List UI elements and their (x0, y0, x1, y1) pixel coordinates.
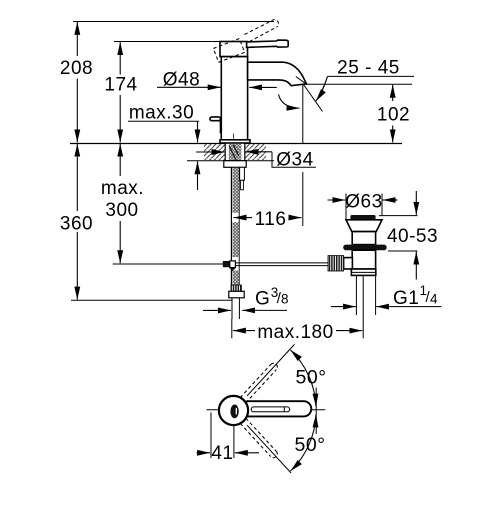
dimension 174 (119, 42, 121, 75)
top reference line (208 level) (73, 21, 274, 23)
faucet base (220, 140, 250, 143)
top view: body circle (219, 396, 248, 425)
dimension 208 (76, 22, 78, 56)
102 top reference line (305, 83, 412, 85)
svg-text:300: 300 (105, 200, 138, 221)
waste body lower (352, 250, 375, 269)
svg-text:25 - 45: 25 - 45 (337, 58, 400, 79)
svg-text:41: 41 (211, 443, 233, 464)
waste seal ring (343, 245, 386, 251)
top view: lever capsule (241, 401, 311, 416)
svg-text:208: 208 (60, 58, 93, 79)
hose end knurled nut (231, 285, 241, 291)
174 reference line (114, 41, 247, 43)
pull-rod (219, 120, 221, 133)
dimension 360 (76, 144, 78, 211)
pop-up rod horizontal (double line to waste) (235, 263, 328, 266)
deck bottom line (187, 160, 274, 162)
svg-text:G: G (255, 289, 270, 310)
svg-text:max.: max. (101, 178, 144, 199)
water stream line (304, 85, 323, 112)
pop-up waste: plug cap (350, 215, 375, 220)
50° reference line upper (247, 344, 294, 395)
dimension max.300 (119, 144, 121, 176)
svg-text:4: 4 (430, 292, 438, 307)
rod coupling at hose (223, 261, 230, 267)
top view: centerline (207, 409, 326, 411)
mounting nut (224, 161, 246, 168)
svg-text:50°: 50° (295, 434, 326, 456)
dashed cartridge (raised position) (213, 39, 244, 63)
svg-text:40-53: 40-53 (387, 226, 438, 247)
svg-text:360: 360 (60, 214, 93, 235)
tailpipe inner / max180 extension line (362, 275, 364, 338)
svg-text:102: 102 (377, 105, 410, 126)
dimension 41 (211, 413, 234, 459)
waste tailpipe (356, 275, 375, 315)
dimension Ø63 (346, 194, 382, 220)
top view: upper dashed lever (240, 365, 271, 398)
waste flange bell (346, 220, 382, 232)
top view: cartridge oval (230, 405, 238, 419)
spout aerator face (296, 77, 306, 84)
swivel arc arrow (279, 95, 300, 109)
pull-rod knob (210, 117, 221, 121)
dimension 102 (392, 85, 394, 101)
svg-text:116: 116 (255, 209, 287, 230)
waste collar (351, 269, 375, 275)
tube extension line (231, 319, 233, 338)
hose end hex nut (229, 291, 244, 298)
top view: lower dashed lever (240, 423, 271, 456)
supply tube (232, 298, 239, 319)
svg-text:Ø63: Ø63 (345, 192, 382, 213)
waste side port (344, 258, 353, 269)
angle reference vertical line (315, 388, 317, 435)
lower 50° arc (291, 414, 317, 471)
spout extension line (302, 84, 304, 143)
dashed lever (raised position) (245, 21, 272, 35)
dimension 40-53 (379, 216, 418, 251)
svg-text:max.30: max.30 (129, 103, 194, 124)
cartridge block (220, 42, 248, 57)
faucet body (221, 57, 247, 140)
svg-text:50°: 50° (296, 367, 327, 389)
50° reference line lower (247, 425, 291, 473)
lever handle (horizontal) (247, 40, 289, 47)
spout (248, 62, 307, 85)
svg-text:8: 8 (281, 292, 289, 307)
threaded shank through deck (225, 143, 245, 160)
upper 50° arc (291, 350, 317, 407)
waste body upper (352, 232, 375, 245)
top view: lever slot (251, 407, 289, 412)
pop-up rod upper section (240, 167, 245, 180)
dimension max.180 (233, 330, 255, 332)
deck hatching (204, 144, 266, 160)
svg-text:G1: G1 (393, 288, 419, 309)
svg-text:174: 174 (104, 75, 137, 96)
waste knurled nut (328, 256, 344, 271)
svg-text:max.180: max.180 (257, 322, 333, 343)
dimension 116 (234, 217, 253, 219)
supply hose with braid (230, 167, 232, 297)
pop-up rod horizontal (left part) (113, 263, 223, 265)
360 bottom reference line (71, 299, 232, 301)
deck top line (70, 143, 402, 145)
